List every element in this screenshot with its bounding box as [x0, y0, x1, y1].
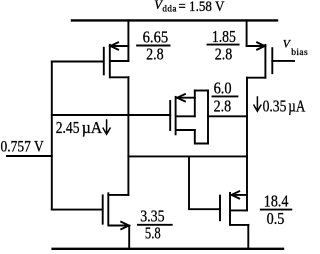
wire M3 loop right edge: [207, 91, 209, 144]
wire M4 gate tap from mid wire: [189, 156, 220, 209]
wire M5 source vertical to bottom rail: [128, 226, 130, 249]
svg-text:µA: µA: [82, 118, 103, 137]
wire M3 source arrow: [177, 94, 185, 101]
wire fraction bar 3.35/5.8: [138, 224, 172, 226]
wire mid-lower horizontal (M1 drain to M4 gate node): [128, 155, 247, 157]
transistor M2 gate bar: [271, 48, 273, 73]
svg-text:2.8: 2.8: [146, 44, 164, 63]
svg-text:= 1.58 V: = 1.58 V: [178, 0, 224, 15]
wire M3 drain lead: [177, 129, 195, 131]
wire M4 drain lead: [231, 194, 247, 196]
wire bottom rail (Vss): [53, 248, 283, 250]
svg-text:6.0: 6.0: [214, 79, 232, 98]
node 18.4/0.5 label: [264, 192, 289, 229]
wire Vdda top rail: [72, 19, 277, 21]
svg-text:18.4: 18.4: [264, 192, 289, 211]
wire 0.35uA down-arrow glyph: [254, 97, 261, 111]
wire M4 bulk stub: [231, 209, 247, 211]
wire M1 source arrow: [110, 42, 118, 49]
wire M2 gate lead to Vbias: [272, 60, 294, 62]
wire M1 drain lead: [111, 76, 129, 78]
node 3.35/5.8 label: [140, 206, 164, 242]
wire left vertical (0.757V node): [51, 62, 53, 210]
wire fraction bar 6.0/2.8: [213, 95, 238, 97]
wire middle wire / M3 gate lead: [52, 114, 170, 116]
svg-text:bias: bias: [291, 48, 308, 58]
wire M3 output to right vertical: [208, 115, 247, 117]
wire M1 source lead: [111, 45, 129, 47]
wire M5 gate lead: [52, 209, 103, 211]
wire M4 source lead: [231, 224, 248, 226]
transistor M4 gate bar: [219, 196, 221, 221]
svg-text:µA: µA: [288, 97, 306, 116]
node Vbias label: [283, 39, 308, 59]
transistor M4 channel bar: [229, 193, 231, 225]
svg-text:2.8: 2.8: [214, 96, 232, 115]
wire fraction bar 18.4/0.5: [261, 209, 292, 211]
wire M1 drain vertical down to M5: [127, 77, 129, 195]
wire 0.757V lead: [7, 155, 52, 157]
wire M3 drain down and bottom edge: [195, 130, 208, 144]
node 6.65/2.8 label: [143, 28, 169, 64]
transistor M1 channel bar: [109, 45, 111, 78]
node Vdda label: [154, 0, 225, 15]
svg-text:0.757 V: 0.757 V: [1, 139, 45, 156]
wire M3 bulk stub: [177, 115, 195, 117]
svg-text:5.8: 5.8: [145, 224, 161, 243]
wire M5 source lead: [109, 225, 129, 227]
wire M4 source vertical to bottom rail: [247, 225, 249, 249]
transistor M5 channel bar: [107, 193, 109, 225]
node 1.85/2.8 label: [212, 27, 236, 64]
transistor M5 gate bar: [102, 195, 104, 223]
node 6.0/2.8 label: [214, 79, 232, 116]
wire M4 drain arrow: [232, 191, 240, 198]
wire M5 drain lead: [109, 194, 128, 196]
svg-text:0.5: 0.5: [267, 209, 285, 228]
wire M2 source vertical from rail: [246, 20, 248, 46]
wire M3 source lead: [177, 97, 195, 99]
wire M2 source arrow: [257, 42, 265, 49]
svg-text:3.35: 3.35: [140, 206, 164, 225]
node 2.45uA label: [56, 118, 103, 137]
transistor M3 channel bar: [175, 97, 177, 134]
wire M2 drain lead: [247, 77, 265, 79]
wire M2 source lead: [247, 45, 265, 47]
transistor M1 gate bar: [103, 48, 105, 75]
wire M1 gate lead: [52, 61, 104, 63]
wire M5 source arrow: [121, 222, 129, 229]
svg-text:0.35: 0.35: [263, 97, 287, 116]
wire M1 source vertical to rail: [127, 20, 129, 61]
wire right vertical (M2 drain down to M4): [246, 78, 248, 211]
svg-text:1.85: 1.85: [212, 27, 236, 46]
wire fraction bar 6.65/2.8: [137, 45, 169, 47]
wire fraction bar 1.85/2.8: [208, 44, 239, 46]
wire M3 source/bulk left edge: [194, 91, 196, 117]
node 0.35uA label: [263, 97, 306, 116]
svg-text:2.8: 2.8: [215, 44, 233, 63]
svg-text:2.45: 2.45: [56, 118, 80, 137]
transistor M3 gate bar: [169, 101, 171, 130]
transistor M2 channel bar: [264, 45, 266, 78]
svg-text:dda: dda: [162, 3, 177, 13]
wire 2.45uA down-arrow glyph: [103, 120, 110, 134]
wire M1 bulk stub: [111, 60, 129, 62]
wire M3 loop top edge: [195, 90, 208, 92]
